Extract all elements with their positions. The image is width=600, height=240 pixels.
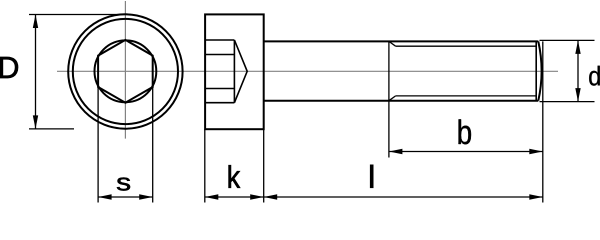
arrow l right xyxy=(529,194,543,199)
dimension line l xyxy=(264,196,543,198)
head outer circle (front view, diameter D) xyxy=(68,14,182,128)
socket chamfer circle (front view) xyxy=(95,40,157,102)
thread start line xyxy=(388,41,390,100)
socket corner line lower (side view) xyxy=(205,88,234,90)
thread runout chamfer top xyxy=(389,41,396,46)
extension line s right xyxy=(152,87,154,203)
socket depth line (side view) xyxy=(233,40,235,103)
dimension line k xyxy=(205,196,264,198)
vertical centerline (front view) xyxy=(124,1,126,139)
label D xyxy=(0,57,18,78)
dimension line b xyxy=(389,151,543,153)
horizontal centerline (screw axis) xyxy=(57,70,558,72)
arrow s left xyxy=(98,194,112,199)
arrow l left xyxy=(264,194,278,199)
socket silhouette top line (side view) xyxy=(205,39,234,41)
shank bottom line (major diameter) xyxy=(264,100,539,102)
arrow D top xyxy=(33,15,38,29)
dimension line s xyxy=(98,196,153,198)
extension line d bottom xyxy=(540,101,595,103)
arrow d top xyxy=(575,40,580,54)
extension line D top xyxy=(29,14,131,16)
arrow d bottom xyxy=(575,88,580,102)
thread minor diameter bottom line xyxy=(396,95,537,97)
extension line d top xyxy=(540,39,595,41)
extension line k right / l left xyxy=(263,129,265,202)
head rectangle (side view) xyxy=(205,14,264,129)
extension line l right / b right xyxy=(542,41,544,202)
label s xyxy=(117,178,130,191)
arrow b right xyxy=(529,149,543,154)
dimension line d xyxy=(577,40,579,101)
shank top line (major diameter) xyxy=(264,40,539,42)
label d xyxy=(589,66,600,86)
arrow k right xyxy=(250,194,264,199)
extension line s left xyxy=(97,87,99,203)
arrow s right xyxy=(139,194,153,199)
arrow b left xyxy=(389,149,403,154)
head chamfer circle (front view) xyxy=(73,19,178,124)
extension line b left xyxy=(388,101,390,158)
tip end face line xyxy=(535,41,537,100)
label k xyxy=(229,165,241,188)
hex socket (front view) xyxy=(98,40,153,103)
label b xyxy=(458,119,470,144)
thread minor diameter top line xyxy=(396,45,537,47)
socket cone point (side view) xyxy=(234,40,247,103)
arrow k left xyxy=(205,194,219,199)
tip chamfer arc xyxy=(538,41,541,100)
arrow D bottom xyxy=(33,115,38,128)
extension line k left xyxy=(204,129,206,202)
thread runout chamfer bottom xyxy=(389,96,396,101)
dimension line D xyxy=(35,15,37,129)
socket silhouette bottom line (side view) xyxy=(205,102,234,104)
extension line D bottom xyxy=(29,128,74,130)
socket corner line upper (side view) xyxy=(205,54,234,56)
label l xyxy=(370,164,374,188)
